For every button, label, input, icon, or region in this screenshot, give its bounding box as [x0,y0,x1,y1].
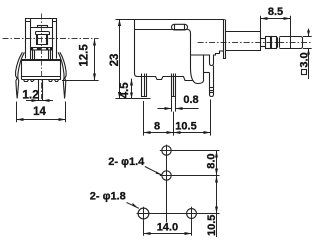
svg-text:3.0: 3.0 [299,52,311,67]
svg-text:10.5: 10.5 [175,120,196,132]
svg-text:14.0: 14.0 [157,221,178,233]
svg-text:8.5: 8.5 [268,6,283,18]
svg-text:1.2: 1.2 [22,88,39,102]
svg-text:4.5: 4.5 [119,82,131,99]
svg-text:12.5: 12.5 [78,44,90,67]
svg-text:2- φ1.8: 2- φ1.8 [90,190,126,202]
svg-text:0.8: 0.8 [183,94,198,106]
svg-text:23: 23 [109,54,121,67]
svg-text:8.0: 8.0 [205,153,217,168]
svg-text:10.5: 10.5 [206,215,218,236]
svg-text:2- φ1.4: 2- φ1.4 [108,156,145,168]
svg-text:8: 8 [154,120,160,132]
svg-text:14: 14 [33,106,46,118]
